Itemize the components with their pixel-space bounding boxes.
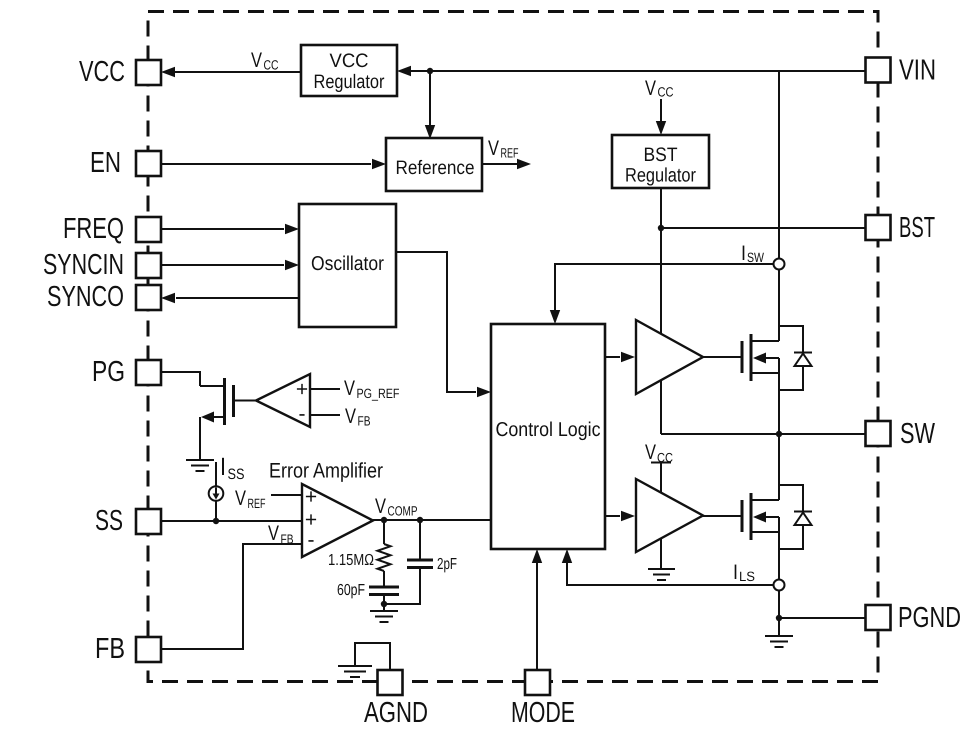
svg-text:AGND: AGND	[364, 697, 428, 729]
wire SS pin to error amplifier	[161, 520, 302, 522]
svg-text:V: V	[488, 137, 499, 160]
block BST Regulator	[612, 135, 709, 188]
svg-text:VCC: VCC	[79, 56, 125, 88]
wire EN to Reference	[161, 159, 386, 169]
wire low-side driver to ground	[660, 538, 662, 568]
pin VIN	[866, 58, 891, 83]
node VPG_REF label	[344, 377, 400, 401]
svg-text:-: -	[308, 529, 315, 552]
svg-text:FB: FB	[358, 414, 371, 429]
svg-text:PG: PG	[92, 356, 125, 388]
svg-text:1.15MΩ: 1.15MΩ	[328, 552, 374, 569]
wire high-side driver to FET gate	[703, 356, 742, 358]
junction dot on SS wire	[213, 518, 219, 524]
svg-text:Oscillator: Oscillator	[311, 253, 384, 275]
svg-text:2pF: 2pF	[437, 556, 457, 573]
wire VIN to VCC regulator input	[397, 66, 865, 76]
wire PG FET source to ground	[199, 417, 201, 460]
svg-text:+: +	[305, 486, 317, 509]
svg-text:V: V	[345, 405, 356, 428]
junction dot on SW net	[776, 431, 782, 437]
svg-text:SS: SS	[228, 466, 245, 483]
svg-text:CC: CC	[658, 85, 674, 100]
svg-text:SW: SW	[747, 250, 764, 265]
svg-text:V: V	[268, 522, 279, 545]
node VCC label above low-side driver	[645, 441, 673, 465]
svg-text:I: I	[733, 561, 738, 584]
svg-text:SS: SS	[95, 505, 123, 537]
pin PG	[136, 360, 161, 385]
ground symbol below low-side driver	[648, 569, 675, 580]
wire PGND net	[779, 617, 865, 619]
svg-text:Control Logic: Control Logic	[496, 419, 601, 441]
wire Reference output VREF	[482, 159, 531, 169]
node VCC label on wire	[251, 49, 279, 73]
capacitor 2pF	[384, 520, 433, 604]
wire Control Logic to low-side driver	[605, 511, 635, 521]
pin AGND	[378, 670, 403, 695]
wire high-side driver lower rail to SW	[660, 380, 662, 434]
block Control Logic	[491, 324, 605, 549]
svg-text:EN: EN	[90, 147, 121, 179]
node ISW label	[741, 242, 764, 265]
pin SYNCIN	[136, 253, 161, 278]
buffer high-side gate driver	[636, 320, 703, 394]
svg-text:BST: BST	[899, 212, 935, 244]
op-amp error amplifier	[302, 484, 373, 557]
svg-text:PGND: PGND	[898, 602, 961, 634]
wire FB pin to error amplifier inverting input	[161, 544, 302, 649]
buffer low-side gate driver	[636, 479, 703, 552]
wire VCC regulator output to VCC pin	[161, 67, 301, 77]
pin MODE	[525, 670, 550, 695]
junction dot on PGND net	[776, 615, 782, 621]
ground symbol PG FET source	[186, 460, 214, 471]
wire low-side FET source to ILS sense	[778, 434, 780, 636]
svg-text:60pF: 60pF	[337, 582, 365, 599]
svg-text:REF: REF	[501, 146, 519, 161]
IC boundary dashed border	[148, 12, 878, 682]
pin BST	[866, 215, 891, 240]
pin EN	[136, 151, 161, 176]
wire BST regulator output to BST pin and high-side driver rail	[661, 188, 865, 334]
svg-text:Reference: Reference	[396, 157, 475, 179]
wire Oscillator output to Control Logic	[396, 252, 491, 397]
capacitor 60pF	[369, 587, 399, 604]
wire Oscillator to SYNCO	[161, 293, 299, 303]
wire error amplifier output VCOMP to Control Logic	[373, 519, 491, 521]
svg-text:VCC: VCC	[330, 50, 369, 72]
wire SYNCIN to Oscillator	[161, 260, 299, 270]
wire AGND to ground	[355, 643, 390, 670]
wire to compensation ground	[383, 604, 385, 611]
block VCC Regulator	[301, 45, 397, 96]
svg-text:V: V	[645, 441, 656, 464]
svg-text:VIN: VIN	[899, 55, 936, 87]
pin SS	[136, 509, 161, 534]
wire VIN branch down to Reference	[425, 71, 435, 139]
wire PG pin to PG FET drain	[161, 372, 200, 386]
comparator plus input lead	[310, 388, 340, 390]
block Reference	[386, 138, 482, 191]
junction dot on VIN line	[427, 68, 433, 74]
svg-text:V: V	[251, 49, 262, 72]
node VCC label above BST regulator	[645, 77, 674, 100]
svg-text:SYNCO: SYNCO	[47, 281, 124, 313]
junction dot VCOMP at 2pF	[417, 517, 423, 523]
current sense ISW circle	[774, 259, 785, 270]
node VCOMP label	[375, 495, 418, 519]
transistor PG open-drain FET	[200, 378, 234, 425]
wire ILS sense to Control Logic bottom	[562, 549, 774, 585]
node VFB label at error amplifier	[268, 522, 294, 547]
wire VCC to low-side driver rail	[651, 462, 671, 464]
diode low-side body diode	[779, 485, 812, 549]
svg-text:SW: SW	[900, 418, 935, 450]
svg-text:REF: REF	[248, 496, 266, 511]
svg-text:COMP: COMP	[388, 504, 418, 519]
svg-text:+: +	[296, 378, 308, 401]
node ILS label	[733, 561, 755, 584]
block Oscillator	[299, 204, 396, 327]
resistor 1.15M ohm	[378, 520, 391, 586]
node ISS label	[220, 453, 245, 483]
wire comparator output to PG FET gate	[235, 400, 256, 402]
svg-text:V: V	[645, 77, 656, 100]
junction dot on BST net	[658, 225, 664, 231]
svg-text:LS: LS	[739, 569, 755, 584]
node VREF output label	[488, 137, 519, 161]
wire FREQ to Oscillator	[161, 224, 299, 234]
svg-text:I: I	[741, 242, 746, 265]
wire VIN branch down to high-side FET drain	[778, 71, 780, 434]
current source ISS	[209, 462, 224, 521]
svg-text:SYNCIN: SYNCIN	[43, 249, 124, 281]
wire SW node to SW pin	[661, 433, 865, 435]
transistor high-side MOSFET	[742, 334, 779, 381]
svg-text:FB: FB	[95, 633, 125, 665]
ground symbol AGND	[338, 666, 372, 677]
svg-text:V: V	[375, 495, 386, 518]
op-amp PG comparator	[256, 374, 310, 427]
wire Control Logic to high-side driver	[605, 352, 635, 362]
svg-text:PG_REF: PG_REF	[357, 386, 400, 401]
svg-text:Regulator: Regulator	[314, 71, 385, 93]
wire MODE to Control Logic bottom	[532, 549, 542, 670]
node VREF label at error amplifier	[235, 487, 266, 511]
svg-text:-: -	[299, 403, 306, 426]
diode high-side body diode	[779, 326, 812, 390]
wire VREF lead to error amplifier	[271, 494, 302, 496]
pin FREQ	[136, 217, 161, 242]
current sense ILS circle	[774, 580, 785, 591]
svg-text:V: V	[344, 377, 355, 400]
transistor low-side MOSFET	[742, 493, 779, 540]
comparator minus input lead	[310, 414, 340, 416]
wire VCC into BST regulator	[656, 99, 666, 135]
ground symbol compensation network	[370, 611, 398, 622]
junction dot VCOMP at resistor	[381, 517, 387, 523]
junction dot below 60pF	[381, 601, 387, 607]
svg-text:FREQ: FREQ	[63, 213, 124, 245]
svg-text:CC: CC	[264, 58, 279, 73]
pin SW	[866, 421, 891, 446]
wire low-side driver to FET gate	[703, 515, 742, 517]
pin VCC	[136, 60, 161, 85]
svg-text:Error Amplifier: Error Amplifier	[269, 460, 383, 483]
ground symbol on PGND net	[765, 636, 793, 647]
svg-text:Regulator: Regulator	[625, 165, 696, 187]
svg-text:V: V	[235, 487, 246, 510]
pin SYNCO	[136, 285, 161, 310]
pin PGND	[866, 605, 891, 630]
wire ISW sense to Control Logic top	[550, 264, 774, 324]
pin FB	[136, 637, 161, 662]
node VFB label at comparator	[345, 405, 371, 429]
svg-text:I: I	[220, 453, 226, 481]
svg-text:MODE: MODE	[511, 697, 575, 729]
svg-text:BST: BST	[644, 144, 678, 166]
